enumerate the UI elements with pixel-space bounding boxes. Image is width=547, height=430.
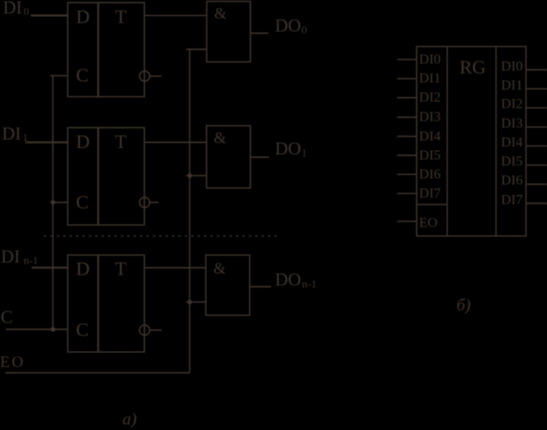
- output label DO1: [275, 139, 307, 160]
- wire EO bus to gate 3 input 2: [186, 301, 206, 303]
- dashed separator line: [44, 235, 280, 237]
- junction EO bus / gate 2: [187, 173, 192, 178]
- wire gate 3 output: [250, 286, 271, 288]
- svg-text:DI2: DI2: [501, 97, 523, 112]
- RG output stub DI4: [526, 145, 547, 147]
- svg-text:DI: DI: [2, 124, 21, 144]
- svg-text:DI5: DI5: [419, 148, 441, 163]
- svg-text:C: C: [76, 66, 89, 87]
- svg-text:DI4: DI4: [419, 129, 441, 144]
- wire DI1 to FF2 D: [26, 141, 68, 143]
- svg-text:1: 1: [302, 148, 308, 160]
- wire C input to FF3 C: [6, 328, 68, 330]
- svg-text:DI7: DI7: [501, 193, 523, 208]
- RG input stub DI1: [397, 78, 417, 80]
- svg-text:T: T: [115, 132, 127, 153]
- svg-text:C: C: [1, 307, 13, 327]
- svg-text:&: &: [213, 260, 226, 277]
- RG input stub DI5: [397, 154, 417, 156]
- RG input stub DI7: [397, 193, 417, 195]
- svg-text:n-1: n-1: [302, 279, 317, 291]
- C bus vertical: [52, 76, 54, 330]
- register RG body: [417, 47, 526, 237]
- FF3 divider: [97, 255, 99, 352]
- FF2 divider: [97, 128, 99, 225]
- output label DO0: [275, 16, 308, 37]
- EO bus vertical: [189, 49, 191, 373]
- FF2 inverted output circle: [140, 197, 150, 207]
- RG output stub DI0: [526, 69, 547, 71]
- RG input stub EO: [397, 220, 417, 222]
- AND gate 1 body: [207, 1, 251, 62]
- wire EO bus to gate 2 input 2: [186, 175, 206, 177]
- input label DI1: [2, 124, 28, 145]
- svg-text:DI3: DI3: [419, 110, 441, 125]
- flip-flop FF3 body: [68, 255, 145, 352]
- svg-text:DI: DI: [1, 247, 20, 267]
- FF1 divider: [97, 3, 99, 97]
- input label DI0: [3, 0, 30, 18]
- RG output stub DI1: [526, 88, 547, 90]
- flip-flop FF2 body: [68, 128, 145, 225]
- RG output stub DI3: [526, 126, 547, 128]
- svg-text:n-1: n-1: [24, 255, 39, 267]
- junction C bus / FF2 C: [51, 200, 56, 205]
- RG input stub DI6: [397, 173, 417, 175]
- wire DIn-1 to FF3 D: [32, 267, 68, 269]
- FF3 inverted output circle: [140, 325, 150, 335]
- RG input stub DI4: [397, 135, 417, 137]
- RG input stub DI3: [397, 116, 417, 118]
- svg-text:D: D: [76, 259, 90, 280]
- FF2 inverted output stub: [150, 201, 159, 203]
- svg-text:T: T: [115, 259, 127, 280]
- svg-text:DI2: DI2: [419, 91, 441, 106]
- svg-text:DI1: DI1: [501, 78, 523, 93]
- RG right divider: [495, 47, 497, 237]
- RG left divider: [446, 47, 448, 237]
- AND gate 3 body: [206, 255, 250, 315]
- svg-text:DI: DI: [3, 0, 22, 18]
- wire DI0 to FF1 D: [31, 15, 68, 17]
- wire FF1 T output to gate 1: [144, 15, 206, 17]
- wire gate 1 output: [250, 32, 268, 34]
- RG input stub DI2: [397, 97, 417, 99]
- svg-text:DI7: DI7: [419, 187, 441, 202]
- RG input stub DI0: [397, 59, 417, 61]
- svg-text:DI0: DI0: [501, 59, 523, 74]
- svg-text:0: 0: [24, 6, 30, 18]
- RG EO section divider: [417, 204, 448, 206]
- RG output stub DI7: [526, 202, 547, 204]
- output label DOn-1: [275, 270, 317, 291]
- svg-text:0: 0: [302, 25, 308, 37]
- svg-text:T: T: [115, 7, 127, 28]
- svg-text:DI6: DI6: [419, 167, 441, 182]
- junction C bus / FF3 C: [51, 327, 56, 332]
- svg-text:&: &: [214, 130, 227, 147]
- svg-text:D: D: [76, 7, 90, 28]
- wire gate 2 output: [250, 156, 269, 158]
- RG output stub DI5: [526, 164, 547, 166]
- svg-text:DI3: DI3: [501, 117, 523, 132]
- junction EO bus / gate 3: [187, 300, 192, 305]
- svg-text:DI4: DI4: [501, 136, 523, 151]
- svg-text:&: &: [214, 6, 227, 23]
- wire FF3 T output to gate 3: [144, 267, 205, 269]
- svg-text:DO: DO: [275, 270, 301, 290]
- svg-text:RG: RG: [460, 58, 487, 79]
- flip-flop FF1 body: [68, 3, 145, 97]
- wire EO bus to gate 1 input 2: [186, 48, 207, 50]
- RG output stub DI6: [526, 183, 547, 185]
- wire EO input: [6, 372, 190, 374]
- wire C bus to FF2 C: [53, 201, 68, 203]
- input label DIn-1: [1, 247, 38, 268]
- svg-text:DI5: DI5: [501, 155, 523, 170]
- svg-text:EO: EO: [0, 354, 25, 371]
- RG output stub DI2: [526, 107, 547, 109]
- FF1 inverted output stub: [150, 75, 162, 77]
- svg-text:C: C: [76, 320, 89, 341]
- svg-text:DO: DO: [275, 139, 301, 159]
- svg-text:EO: EO: [419, 216, 438, 231]
- svg-text:C: C: [76, 192, 89, 213]
- svg-text:DI6: DI6: [501, 174, 523, 189]
- svg-text:DO: DO: [275, 16, 301, 36]
- wire C bus to FF1 C: [50, 75, 67, 77]
- svg-text:б): б): [457, 296, 472, 315]
- FF1 inverted output circle: [140, 71, 150, 81]
- svg-text:DI0: DI0: [419, 53, 441, 68]
- FF3 inverted output stub: [150, 329, 162, 331]
- wire FF2 T output to gate 2: [144, 141, 206, 143]
- svg-text:а): а): [123, 410, 138, 429]
- svg-text:D: D: [76, 132, 90, 153]
- AND gate 2 body: [207, 126, 251, 188]
- svg-text:DI1: DI1: [419, 72, 441, 87]
